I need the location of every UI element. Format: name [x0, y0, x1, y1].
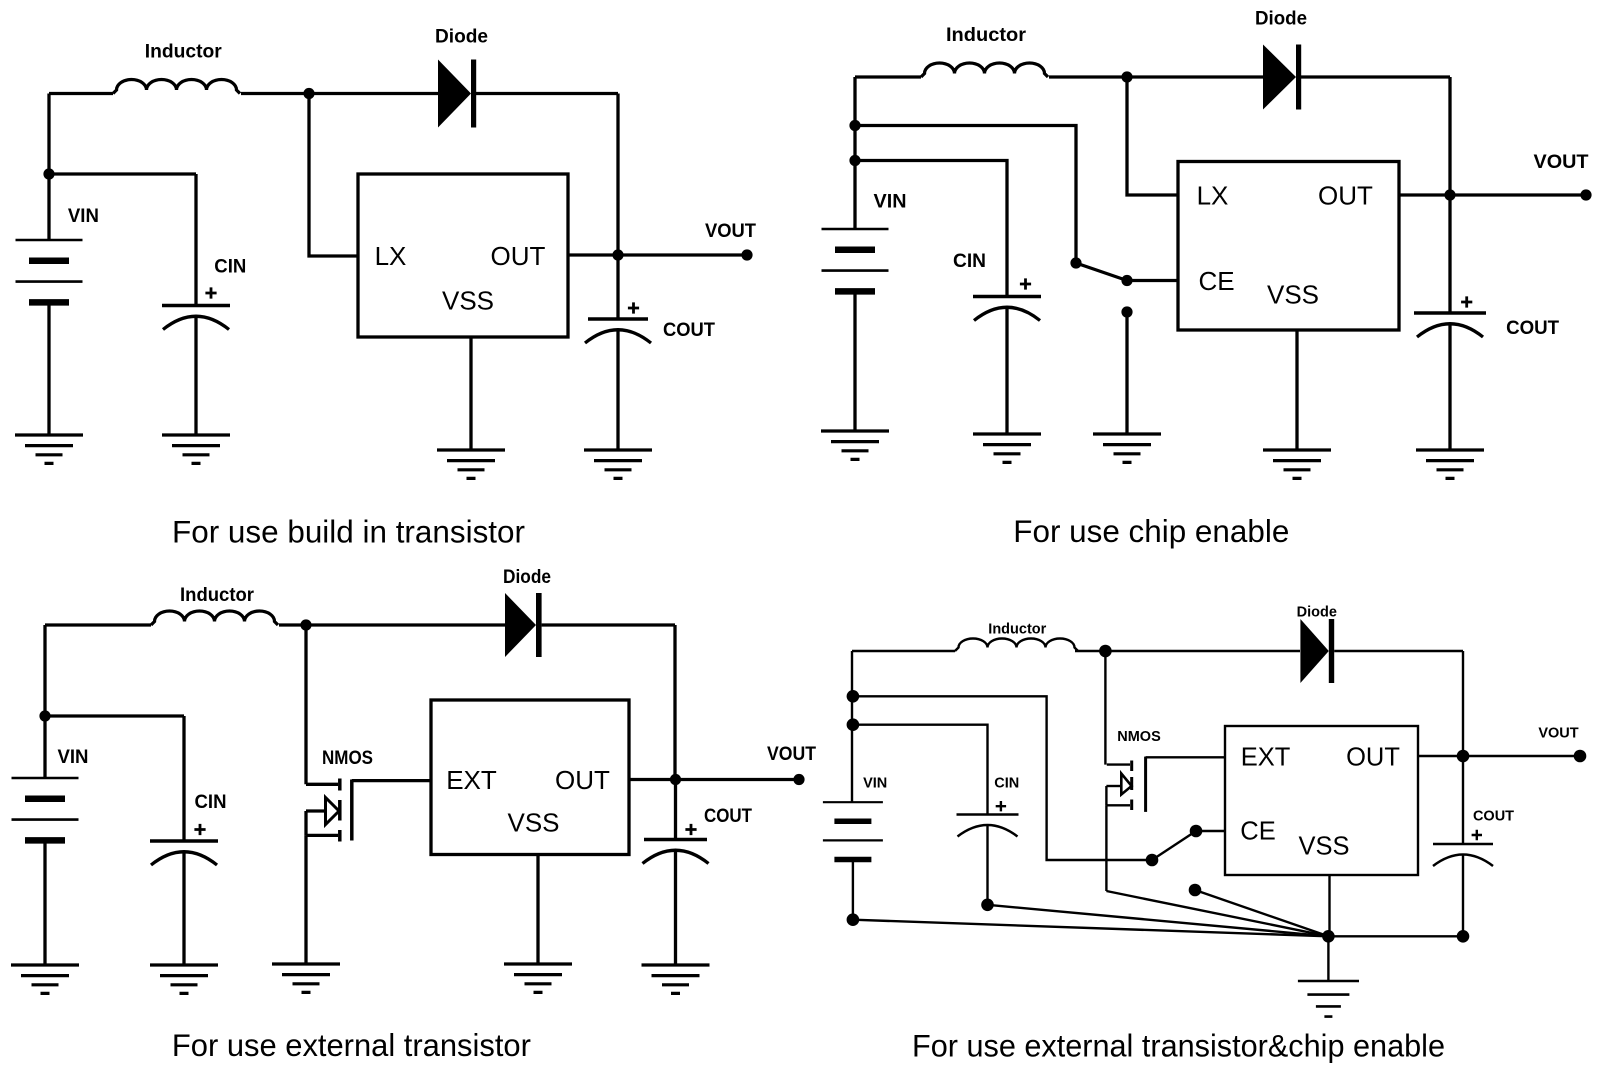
svg-text:LX: LX	[1197, 181, 1229, 211]
wire VIN to CIN (c4)	[853, 725, 988, 815]
ground CIN (c3)	[150, 965, 218, 993]
terminal VOUT dot (c4)	[1574, 750, 1587, 763]
wire OUT pin to VOUT (c4)	[1418, 755, 1580, 757]
capacitor CIN (c2)	[973, 295, 1041, 298]
ground VSS (c3)	[504, 964, 572, 992]
switch throw dot CE (c2)	[1121, 275, 1132, 286]
wire down to OUT node (c3)	[673, 625, 676, 780]
node star ground dot (c4)	[1322, 930, 1335, 943]
svg-text:Inductor: Inductor	[946, 25, 1027, 46]
wire COUT down to node (c4)	[1462, 854, 1464, 936]
node OUT junction dot (c4)	[1457, 750, 1470, 763]
wire battery diagonal to star ground (c4)	[853, 920, 1329, 937]
transistor Q1 channel dashes	[338, 779, 342, 842]
wire down to OUT node (c2)	[1448, 77, 1451, 195]
wire left rail down (c4)	[851, 651, 853, 802]
transistor Q2 body lead	[1106, 785, 1121, 787]
wire battery to ground (c2)	[853, 295, 856, 432]
svg-text:VSS: VSS	[442, 286, 494, 316]
capacitor COUT (c4)	[1433, 843, 1493, 846]
wire down to OUT node (c4)	[1462, 651, 1464, 756]
ground VSS (c2)	[1263, 450, 1331, 478]
battery VIN (c4)	[823, 801, 883, 803]
wire CIN to ground	[194, 316, 197, 435]
transistor Q2 channel dashes	[1130, 761, 1133, 811]
wire CIN down to dot (c4)	[986, 824, 988, 905]
wire OUT pin to VOUT	[568, 253, 747, 256]
wire left rail down to VIN node	[47, 94, 50, 175]
wire left rail down (c3)	[43, 625, 46, 716]
transistor Q1 body lead	[306, 809, 325, 812]
svg-text:COUT: COUT	[704, 806, 752, 827]
plus sign CIN (c4)	[996, 801, 1006, 811]
ground CIN (c2)	[973, 434, 1041, 462]
switch throw dot CE (c4)	[1190, 825, 1203, 838]
transistor Q2 source lead	[1106, 804, 1130, 806]
wire VSS pin to ground (c3)	[536, 855, 539, 965]
wire source diagonal to star ground (c4)	[1106, 891, 1328, 936]
wire source to ground (c3)	[304, 835, 307, 964]
switch pole dot (c2)	[1070, 257, 1081, 268]
diode D2	[1263, 45, 1296, 110]
diode D1	[438, 60, 471, 128]
wire VIN node to battery	[47, 174, 50, 240]
wire OUT pin to VOUT (c2)	[1399, 193, 1586, 196]
svg-text:VOUT: VOUT	[705, 221, 756, 242]
svg-text:VSS: VSS	[1267, 280, 1319, 310]
svg-text:LX: LX	[375, 241, 407, 271]
wire VIN node to CIN branch (c3)	[45, 714, 184, 717]
wire CIN branch down (c3)	[182, 716, 185, 841]
switch pole dot (c4)	[1146, 854, 1159, 867]
wire body-source tie (c3)	[304, 811, 307, 835]
wire VIN top-left to inductor	[49, 92, 113, 95]
terminal VOUT dot (c2)	[1580, 189, 1591, 200]
wire COUT to ground	[616, 330, 619, 451]
transistor Q2 body arrow	[1121, 774, 1131, 795]
wire VIN to switch (c4)	[853, 696, 1152, 860]
svg-text:NMOS: NMOS	[322, 748, 373, 769]
ground VSS	[437, 450, 505, 478]
svg-text:CIN: CIN	[953, 251, 986, 272]
ground CIN	[162, 435, 230, 463]
svg-text:CIN: CIN	[214, 257, 246, 278]
battery VIN (c2)	[822, 228, 889, 231]
wire switch to CE pin (c4)	[1196, 830, 1225, 832]
plus sign COUT (c4)	[1472, 830, 1482, 840]
wire diode to corner (c3)	[542, 623, 675, 626]
battery VIN	[16, 239, 83, 242]
diode D3	[505, 593, 536, 657]
ground battery (c3)	[11, 965, 79, 993]
svg-text:VOUT: VOUT	[767, 744, 816, 765]
wire OUT node down to COUT (c4)	[1462, 756, 1464, 844]
svg-text:VOUT: VOUT	[1534, 152, 1589, 173]
svg-text:EXT: EXT	[446, 765, 497, 795]
wire COUT to ground (c3)	[674, 850, 677, 965]
svg-text:CIN: CIN	[994, 775, 1019, 791]
wire VSS pin down to star (c4)	[1328, 875, 1330, 936]
wire switch lower to ground (c2)	[1125, 312, 1128, 434]
svg-text:For use build in transistor: For use build in transistor	[172, 513, 525, 549]
wire junction down to NMOS drain (c4)	[1104, 651, 1106, 765]
svg-text:OUT: OUT	[491, 241, 546, 271]
svg-text:Inductor: Inductor	[180, 585, 255, 606]
transistor Q2 drain lead	[1107, 763, 1130, 765]
capacitor COUT (c2)	[1414, 311, 1486, 314]
transistor Q1 drain lead	[306, 783, 338, 786]
capacitor COUT (c3)	[644, 838, 707, 841]
diode D4	[1300, 619, 1328, 683]
svg-text:Diode: Diode	[435, 26, 488, 47]
transistor Q1 body arrow	[326, 798, 340, 825]
svg-text:COUT: COUT	[1473, 809, 1514, 825]
wire CIN to ground (c3)	[182, 852, 185, 966]
plus sign CIN (c2)	[1020, 278, 1031, 289]
wire battery to dot (c4)	[852, 860, 854, 920]
plus sign CIN (c3)	[194, 824, 205, 835]
IC U3 body	[431, 700, 629, 855]
wire CIN to ground (c2)	[1005, 307, 1008, 434]
svg-text:VIN: VIN	[874, 192, 907, 213]
wire diode to corner (c4)	[1334, 650, 1463, 652]
node VIN dot lower (c2)	[849, 155, 860, 166]
capacitor CIN (c4)	[957, 813, 1019, 816]
wire OUT pin to VOUT (c3)	[629, 778, 799, 781]
wire star node to ground symbol (c4)	[1327, 936, 1329, 981]
ground battery	[15, 435, 83, 463]
node VIN dot (c3)	[39, 710, 50, 721]
inductor L4	[955, 639, 1078, 652]
svg-text:CE: CE	[1198, 266, 1234, 296]
ground NMOS source (c3)	[272, 964, 340, 992]
svg-text:VSS: VSS	[507, 808, 559, 838]
switch blade (c4)	[1152, 831, 1196, 860]
svg-text:VOUT: VOUT	[1538, 726, 1578, 742]
wire inductor to diode (c4)	[1075, 650, 1300, 652]
node COUT ground dot (c4)	[1457, 930, 1470, 943]
node OUT junction dot	[612, 249, 623, 260]
svg-text:OUT: OUT	[1346, 744, 1400, 772]
node LX junction dot (c2)	[1121, 71, 1132, 82]
wire VSS pin to ground	[469, 337, 472, 450]
svg-text:COUT: COUT	[663, 320, 715, 341]
node VIN dot upper (c4)	[847, 690, 860, 703]
wire diode cathode to corner	[476, 92, 618, 95]
wire switch lower diagonal to star ground (c4)	[1195, 890, 1328, 936]
plus sign COUT (c2)	[1461, 296, 1472, 307]
wire LX node to LX pin (c2)	[1127, 77, 1178, 195]
battery VIN (c3)	[12, 777, 79, 780]
transistor Q1 source lead	[306, 834, 338, 837]
ground star (c4)	[1298, 981, 1359, 1017]
node VIN dot upper (c2)	[849, 120, 860, 131]
wire VIN to switch (c2)	[855, 126, 1076, 264]
wire battery to ground (c3)	[43, 844, 46, 966]
node OUT junction dot (c3)	[670, 774, 681, 785]
svg-text:NMOS: NMOS	[1117, 729, 1161, 745]
node drain junction dot (c4)	[1099, 645, 1112, 658]
wire LX node down to LX pin	[309, 94, 358, 257]
svg-text:Diode: Diode	[503, 567, 551, 588]
wire VIN to CIN (c2)	[855, 161, 1007, 298]
node CIN ground dot (c4)	[981, 899, 994, 912]
node drain junction dot (c3)	[300, 619, 311, 630]
node OUT junction dot (c2)	[1444, 189, 1455, 200]
inductor L2	[921, 63, 1048, 77]
plus sign COUT (c3)	[685, 824, 696, 835]
wire inductor to diode (c3)	[279, 623, 505, 626]
wire CIN diagonal to star ground (c4)	[988, 905, 1329, 937]
svg-text:VIN: VIN	[68, 206, 99, 227]
node VIN dot lower (c4)	[847, 718, 860, 731]
capacitor CIN	[162, 304, 230, 307]
ground switch (c2)	[1093, 434, 1161, 462]
wire VIN node to battery (c3)	[43, 716, 46, 778]
IC U2 body	[1178, 162, 1399, 331]
wire VSS pin to ground (c2)	[1295, 330, 1298, 450]
svg-text:CIN: CIN	[195, 792, 227, 813]
wire VIN node to CIN branch	[49, 172, 196, 175]
wire OUT node down to COUT (c3)	[674, 780, 677, 840]
svg-text:VIN: VIN	[58, 747, 89, 768]
node LX junction dot	[303, 88, 314, 99]
terminal VOUT dot	[741, 249, 752, 260]
terminal VOUT dot (c3)	[793, 774, 804, 785]
wire VIN top to inductor (c2)	[855, 75, 921, 78]
wire COUT to star ground (c4)	[1328, 935, 1463, 937]
svg-text:OUT: OUT	[555, 765, 610, 795]
ground COUT	[584, 450, 652, 478]
IC U1 body	[358, 174, 568, 337]
wire OUT node down to COUT (c2)	[1448, 195, 1451, 313]
svg-text:CE: CE	[1240, 818, 1275, 846]
inductor L3	[151, 611, 278, 625]
node VIN dot	[43, 168, 54, 179]
svg-text:EXT: EXT	[1241, 744, 1291, 772]
switch throw dot lower (c4)	[1189, 884, 1202, 897]
inductor L1	[113, 80, 240, 94]
wire left rail down (c2)	[853, 77, 856, 229]
svg-text:For use external transistor&ch: For use external transistor&chip enable	[912, 1028, 1445, 1064]
svg-text:COUT: COUT	[1506, 318, 1559, 339]
wire VIN top to inductor (c3)	[45, 623, 151, 626]
node battery ground dot (c4)	[847, 913, 860, 926]
wire switch to CE pin (c2)	[1127, 279, 1178, 282]
wire down to OUT node	[616, 94, 619, 256]
ground COUT (c3)	[642, 965, 710, 993]
wire source down (c4)	[1105, 805, 1107, 891]
svg-text:For use external transistor: For use external transistor	[172, 1027, 531, 1063]
wire OUT node down to COUT	[616, 255, 619, 319]
plus sign COUT	[628, 302, 639, 313]
svg-text:VIN: VIN	[863, 776, 887, 792]
svg-text:For use chip enable: For use chip enable	[1013, 513, 1289, 549]
svg-text:OUT: OUT	[1318, 181, 1373, 211]
capacitor CIN (c3)	[150, 839, 218, 842]
transistor Q1 gate bar	[350, 780, 354, 841]
ground COUT (c2)	[1416, 450, 1484, 478]
capacitor COUT	[588, 317, 648, 320]
switch blade (c2)	[1076, 263, 1127, 281]
wire CIN branch down	[194, 174, 197, 306]
wire inductor to diode anode	[241, 92, 438, 95]
IC U4 body	[1225, 726, 1418, 875]
svg-text:Inductor: Inductor	[145, 41, 223, 62]
svg-text:VSS: VSS	[1298, 833, 1349, 861]
svg-text:Diode: Diode	[1255, 8, 1307, 29]
ground battery (c2)	[821, 431, 889, 459]
switch throw dot lower (c2)	[1121, 306, 1132, 317]
plus sign CIN	[205, 287, 216, 298]
svg-text:Diode: Diode	[1297, 604, 1337, 620]
wire inductor to diode (c2)	[1049, 75, 1263, 78]
wire gate to EXT pin (c3)	[352, 779, 431, 782]
wire gate to EXT pin (c4)	[1146, 756, 1225, 758]
wire diode to corner (c2)	[1301, 75, 1450, 78]
wire body-source tie (c4)	[1105, 786, 1107, 805]
wire VIN top to inductor (c4)	[852, 650, 955, 652]
wire COUT to ground (c2)	[1448, 324, 1451, 451]
svg-text:Inductor: Inductor	[988, 621, 1046, 637]
wire junction down to NMOS drain (c3)	[304, 625, 307, 784]
transistor Q2 gate bar	[1144, 757, 1147, 812]
wire battery to ground	[47, 306, 50, 436]
